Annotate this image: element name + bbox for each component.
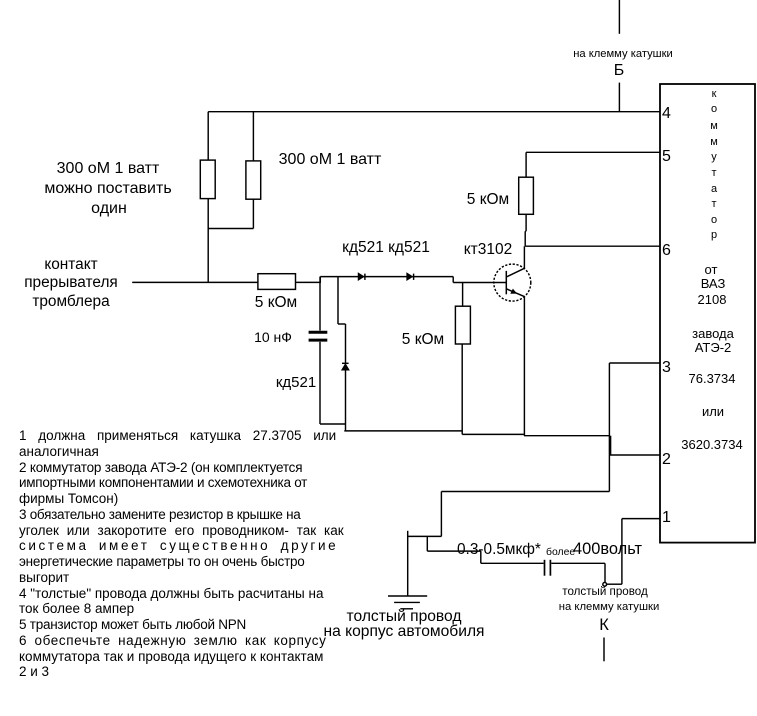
commutator box U1: [660, 84, 755, 543]
wire C2 jog down: [426, 536, 428, 551]
commutator box text ili: [702, 404, 724, 419]
wire thick junction: [610, 436, 612, 455]
wire pin2 rail: [609, 454, 660, 456]
commutator box text 3620.3734: [681, 437, 742, 452]
label thick wire body line2: [323, 623, 484, 641]
wire R1-R2 join: [208, 228, 253, 230]
transistor Q1 emitter arrow: [510, 289, 517, 294]
label D3 value: [275, 374, 315, 391]
label K terminal: [599, 616, 609, 635]
label 300 Ohm right: [279, 151, 382, 169]
commutator box text ATE-2: [694, 340, 731, 355]
label breaker contact line2: [24, 274, 118, 292]
commutator box text zavoda: [692, 326, 734, 341]
label breaker contact line3: [32, 293, 109, 311]
label coil terminal top: [573, 48, 673, 60]
resistor R2 300 Ohm body: [246, 161, 261, 199]
wire R4 bottom lead: [461, 344, 463, 434]
wire R5 bottom lead: [525, 214, 527, 231]
commutator box text VAZ: [700, 276, 725, 291]
wire ground run drop: [440, 492, 442, 537]
wire D3 jog: [338, 323, 346, 325]
wire pin3 rail: [609, 362, 660, 364]
resistor R1 300 Ohm body: [200, 160, 215, 199]
wire C2 left lead b: [481, 562, 544, 564]
wire C2 left lead a: [427, 550, 481, 552]
label thick wire body line1: [347, 608, 462, 626]
commutator box pin 5: [662, 148, 671, 166]
label R4 value: [402, 331, 444, 349]
label R5 value: [467, 191, 509, 209]
wire node step up: [319, 277, 321, 283]
wire R4 top lead: [462, 283, 464, 307]
wire ground lead: [407, 531, 409, 596]
wire ground run left: [408, 535, 442, 537]
wire diode row: [320, 276, 453, 278]
label C2 value small: [546, 547, 575, 558]
wire capacitor C1 branch upper: [319, 277, 321, 331]
label thick wire coil line1: [563, 585, 648, 598]
wire B terminal stub: [618, 83, 620, 112]
diode D3 kd521 cathode bar: [342, 362, 349, 364]
transistor Q1 kt3102 circle: [494, 264, 531, 301]
label 300 Ohm left line1: [57, 160, 160, 178]
wire D3 branch lower: [345, 370, 347, 431]
wire R2 bottom lead: [252, 199, 254, 228]
wire pin1 vertical: [621, 519, 623, 585]
label thick wire coil line2: [558, 601, 659, 613]
node terminal circle: [603, 582, 607, 586]
wire C2 right drop: [604, 563, 606, 582]
wire to transistor base: [453, 282, 506, 284]
wire R5 top lead: [525, 152, 527, 177]
wire bottom rail C: [524, 435, 610, 437]
wire emitter down: [523, 297, 525, 436]
notes block: [19, 428, 344, 680]
label C1 value: [254, 329, 292, 345]
wire step down to base: [452, 277, 454, 283]
wire breaker contact input: [132, 281, 258, 283]
label B terminal: [614, 62, 625, 80]
wire cap-diode bottom join: [320, 423, 346, 425]
ground bar 3: [400, 608, 413, 610]
label Q1 type: [463, 241, 512, 259]
commutator box pin 3: [662, 359, 671, 377]
wire pin6 rail: [525, 245, 660, 247]
resistor R5 5 kOhm body: [519, 177, 534, 214]
label 300 Ohm left line3: [91, 200, 127, 218]
diode D3 kd521 triangle: [342, 364, 348, 369]
label C2 value: [457, 541, 541, 559]
commutator box pin 4: [662, 105, 671, 123]
label breaker contact line1: [45, 256, 98, 274]
transistor Q1 emitter arm: [506, 289, 524, 297]
commutator box pin 6: [662, 242, 671, 260]
commutator box text ot: [704, 262, 717, 277]
transistor Q1 base bar: [505, 271, 507, 294]
resistor R4 5 kOhm body: [455, 306, 470, 344]
wire to pin1 bottom: [607, 583, 622, 585]
capacitor C2 plate left: [544, 560, 546, 576]
label D1 D2 values: [342, 239, 430, 257]
wire collector up: [523, 246, 525, 268]
wire pin3 drop vertical: [608, 363, 610, 492]
wire ground run horizontal: [441, 491, 609, 493]
wire R1 bottom lead: [207, 199, 209, 283]
commutator box text 76.3734: [689, 371, 736, 386]
capacitor C1 plate top: [309, 331, 328, 334]
label R3 value: [254, 294, 296, 312]
wire bottom rail A: [344, 430, 462, 432]
label C2 voltage: [573, 540, 642, 559]
ground bar 1: [388, 595, 427, 597]
wire R2 top lead: [252, 112, 254, 161]
wire bottom rail B: [462, 433, 524, 435]
transistor Q1 collector arm: [506, 268, 524, 277]
wire pin4 top rail: [208, 111, 660, 113]
wire K terminal stub: [603, 638, 605, 662]
commutator box pin 1: [662, 509, 671, 527]
commutator box pin 2: [662, 451, 671, 469]
resistor R3 5 kOhm body: [258, 274, 296, 290]
wire pin5 rail: [526, 151, 660, 153]
wire top feed to coil terminal B: [618, 0, 620, 34]
diode D1 kd521: [359, 274, 364, 280]
commutator vertical word kommutator: [711, 88, 716, 100]
wire pin1 rail: [622, 518, 660, 520]
wire C2 left step: [480, 551, 482, 563]
wire D3 branch upper: [337, 277, 339, 324]
commutator box text 2108: [698, 292, 727, 307]
wire C2 right lead: [551, 562, 605, 564]
label 300 Ohm left line2: [45, 180, 172, 198]
wire R1 top lead: [207, 112, 209, 160]
ground bar 2: [394, 601, 420, 603]
wire R3 to node: [296, 281, 321, 283]
capacitor C1 plate bottom: [309, 339, 328, 342]
wire capacitor C1 branch lower: [319, 342, 321, 424]
capacitor C2 plate right: [549, 560, 551, 576]
diode D2 kd521: [407, 274, 412, 280]
